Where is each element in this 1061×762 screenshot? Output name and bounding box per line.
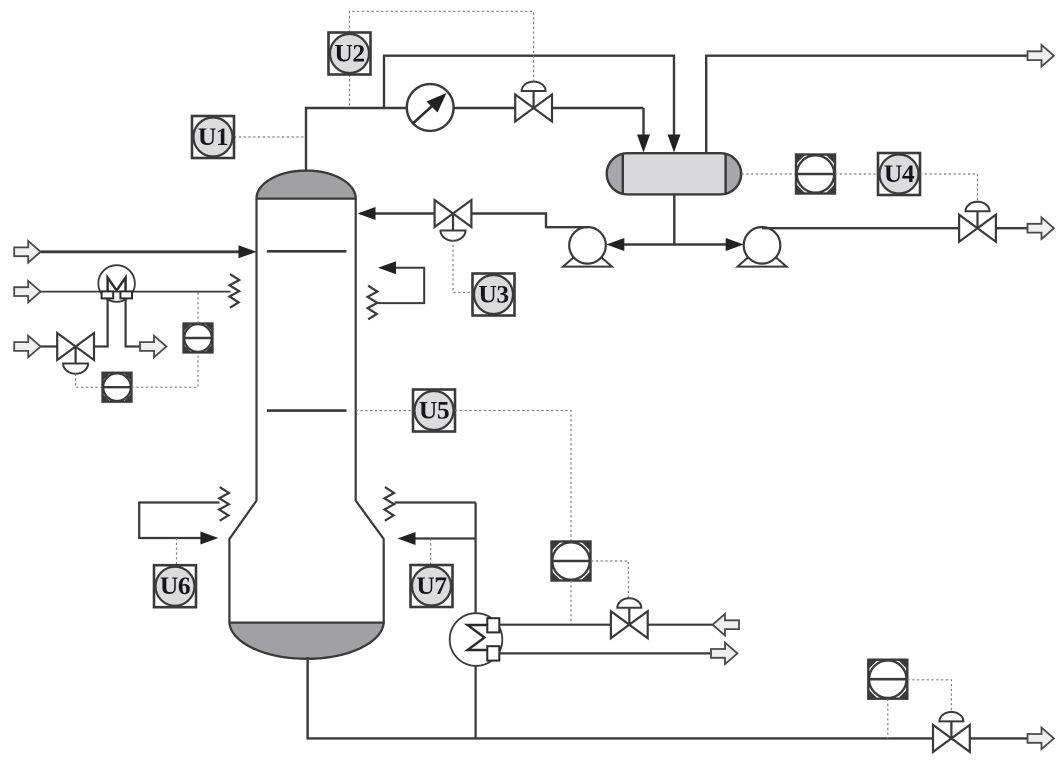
wire dashed U2 to overhead pipe	[349, 75, 351, 109]
zigzag wall symbol lower left	[219, 487, 229, 521]
wire drum bottom outlet manifold	[606, 194, 743, 251]
zigzag wall symbol reboiler return	[384, 487, 394, 521]
arrow preheat inlet	[14, 281, 40, 303]
heat exchanger E1 feed preheater	[98, 265, 135, 302]
arrow product outlet top right	[1028, 45, 1054, 67]
instrument U1	[192, 116, 234, 158]
wire dashed W4 to valve V5	[591, 561, 628, 598]
wire coolant inlet through valve V4	[41, 299, 108, 347]
arrow bottoms outlet	[1028, 728, 1054, 750]
wire preheat process line	[41, 291, 231, 293]
zigzag wall symbol feed preheat	[230, 274, 240, 308]
wire overhead vapor riser and line	[306, 108, 644, 172]
control valve V5 steam	[611, 598, 648, 638]
instrument U3	[473, 274, 515, 316]
wire condensate line	[499, 652, 711, 654]
instrument U7	[411, 565, 453, 607]
reboiler E2	[450, 613, 503, 666]
wire dashed W5 to valve V6	[908, 680, 952, 713]
tray upper	[267, 250, 347, 253]
svg-text:U1: U1	[198, 122, 228, 151]
wire reboiler liquid line with arrow into column	[398, 532, 476, 545]
reflux drum D1	[607, 153, 742, 194]
instrument U2	[329, 33, 371, 75]
wire feed line	[41, 245, 257, 258]
wire dashed U1 to riser	[234, 136, 306, 138]
arrow distillate outlet	[1028, 217, 1054, 239]
wire coolant outlet	[126, 299, 140, 347]
wire dashed loop to U7	[430, 539, 432, 566]
svg-text:U6: U6	[160, 571, 190, 600]
pump P2 distillate	[738, 227, 787, 267]
control valve V3 distillate	[959, 202, 996, 242]
wire dashed loop to U6	[176, 538, 178, 565]
svg-text:U5: U5	[419, 396, 449, 425]
wire lower left circulation loop	[139, 503, 219, 545]
instrument level display drum	[796, 155, 835, 194]
control valve V2 reflux	[435, 200, 472, 241]
wire dashed display to U4	[835, 173, 878, 175]
svg-text:U2: U2	[334, 39, 364, 68]
control valve V4 coolant	[57, 333, 94, 374]
wire dashed U5 to W4	[455, 411, 571, 542]
arrow steam inlet	[713, 614, 739, 636]
arrow coolant inlet	[14, 336, 40, 358]
svg-text:U4: U4	[884, 159, 915, 188]
wire hot vapor bypass	[384, 56, 681, 153]
wire condenser inlet drop into drum	[637, 108, 650, 153]
wire column bottom outlet	[308, 657, 1028, 738]
tray lower	[267, 409, 347, 412]
pump P1 reflux	[563, 227, 612, 267]
wire reboiler vapor return with zigzag	[395, 501, 476, 503]
wire dashed valve V2 to U3	[453, 240, 473, 293]
arrow condensate outlet	[711, 643, 737, 665]
zigzag wall symbol intermediate condenser	[368, 286, 378, 320]
distillation column shell	[229, 171, 383, 659]
wire distillate line	[762, 227, 1028, 229]
wire dashed column tray to U5	[356, 410, 413, 412]
instrument sensor W3	[184, 324, 213, 353]
instrument bottoms display W5	[868, 660, 907, 699]
svg-text:U3: U3	[478, 280, 508, 309]
control valve V6 bottoms	[933, 712, 970, 752]
wire dashed W5 to bottoms line	[887, 699, 889, 738]
wire pumparound return arrow upper right	[378, 261, 425, 303]
wire dashed drum to level instrument	[742, 173, 797, 175]
wire dashed W4 to steam line	[570, 581, 572, 625]
arrow coolant outlet	[140, 336, 166, 358]
svg-text:U7: U7	[416, 571, 447, 600]
wire dashed U4 to valve V3	[920, 174, 978, 202]
wire reboiler riser	[475, 503, 477, 739]
control valve V1 overhead	[515, 82, 552, 122]
instrument flow display W2	[103, 373, 132, 402]
instrument display W4	[552, 542, 591, 581]
wire dashed W2 to W3	[132, 352, 199, 387]
instrument U4	[878, 153, 920, 195]
instrument U6	[154, 565, 196, 607]
wire steam line to reboiler	[499, 624, 713, 626]
wire dashed valve V4 to flow display	[76, 374, 103, 388]
pressure gauge	[407, 84, 454, 131]
wire drum vapor outlet to top right	[706, 56, 1027, 154]
instrument U5	[413, 390, 455, 432]
arrow feed inlet	[14, 241, 40, 263]
wire dashed W3 to preheat line	[197, 292, 199, 324]
wire reflux line from pump P1 to column	[358, 207, 589, 227]
wire dashed U2 to valve V1	[350, 11, 534, 81]
